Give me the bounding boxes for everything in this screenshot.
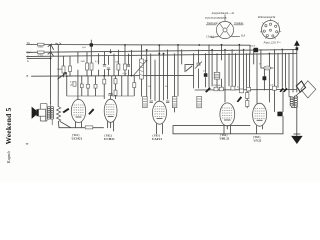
- wire vertical x91.5: [90, 40, 92, 76]
- wire T1 pins: [76, 122, 82, 128]
- paper speck: [26, 143, 29, 145]
- speaker LS cone: [32, 107, 39, 119]
- resistor R12: [240, 89, 244, 93]
- tube socket view circle: [262, 21, 280, 39]
- switch S1a: [48, 44, 54, 50]
- resistor R17: [87, 84, 90, 88]
- wire vertical x212.1: [211, 50, 213, 86]
- resistor R2 on bus B: [38, 51, 45, 54]
- speaker coil box: [39, 104, 47, 121]
- resistor R6: [90, 63, 93, 70]
- resistor R7: [117, 64, 120, 70]
- wire vertical x193.6: [193, 54, 195, 88]
- capacitor C4 blob: [204, 73, 208, 77]
- wire vertical x285.5: [285, 53, 287, 87]
- electrolytic C3: [90, 43, 93, 46]
- tube V5: [253, 103, 267, 126]
- wire vertical x150.7: [150, 54, 152, 99]
- resistor R21: [114, 90, 117, 95]
- resistor R8: [124, 64, 127, 70]
- wave mark on bus A: [56, 43, 62, 45]
- wire vertical x178: [177, 45, 179, 96]
- wire vertical x264.4 cap blob lead: [263, 68, 265, 90]
- IF transformer T2b: [172, 97, 177, 108]
- IF transformer T2a: [143, 97, 148, 108]
- electrolytic C9: [277, 112, 282, 117]
- wire vertical x257: [256, 54, 258, 104]
- wire vertical x174.5 IF2 leads: [174, 54, 176, 112]
- capacitor C2: [127, 65, 130, 66]
- coil L1 tuned: [133, 59, 147, 79]
- mains plug diamond outer: [301, 81, 316, 98]
- capacitor C10: [73, 82, 76, 86]
- wire bus A top: [32, 45, 251, 54]
- wire vertical x63.5: [63, 56, 65, 77]
- junction dots: [50, 44, 298, 77]
- wire vertical x181.7: [181, 50, 183, 64]
- switch S2 bracket: [185, 65, 194, 72]
- wire bus D mid: [32, 74, 194, 77]
- capacitor C8: [166, 101, 169, 103]
- wire main right rail: [296, 45, 298, 136]
- node E terminal: [27, 55, 32, 57]
- trimmer CT1: [195, 62, 202, 69]
- wire vertical x278: [277, 53, 279, 87]
- wire vertical x128.5: [128, 54, 130, 76]
- wire vertical x155: [154, 60, 156, 101]
- resistor R3: [62, 66, 65, 73]
- wire vertical x274.5: [274, 49, 276, 111]
- resistor R1 on bus A: [38, 43, 45, 46]
- IF coil T3a: [214, 72, 220, 79]
- wire vertical x125: [124, 45, 126, 76]
- wire bottom loop: [173, 116, 283, 133]
- resistor R16 heater: [85, 126, 93, 129]
- wire vertical x118.4: [117, 50, 119, 76]
- wire T4 pins: [224, 125, 231, 133]
- IF coil T3 leads: [216, 54, 218, 87]
- electrolytic C6: [254, 48, 259, 52]
- resistor R15: [273, 86, 277, 90]
- rectifier arrows D2: [279, 88, 287, 93]
- wire vertical x219.3: [221, 45, 223, 87]
- wire T3 pins: [157, 124, 163, 134]
- transformer TR1 windings: [289, 92, 300, 108]
- title Kapsch: [6, 149, 12, 165]
- wire vertical x159.3: [158, 45, 160, 101]
- resistor R9: [214, 87, 218, 91]
- wire vertical x50.6: [50, 45, 52, 104]
- capacitor C7: [150, 101, 153, 103]
- wire T2 pins: [108, 122, 114, 131]
- wire vertical x104-109 caps: [105, 52, 109, 76]
- grid arrow V1 right: [88, 108, 94, 115]
- wire vertical x253.7: [253, 50, 255, 65]
- resistor R19: [103, 79, 106, 84]
- resistor R20: [114, 79, 117, 84]
- capacitor C11: [80, 84, 83, 88]
- wire bus C: [32, 54, 297, 57]
- coil L2: [197, 96, 202, 107]
- wire vertical x58.3: [57, 45, 59, 107]
- switch S1b: [48, 52, 54, 56]
- wire vertical x246.4: [245, 54, 247, 88]
- resistor R18: [94, 84, 97, 88]
- arrow dark D1: [205, 87, 211, 93]
- mains plug body: [296, 81, 305, 92]
- divider column R14: [246, 93, 249, 107]
- arrow dark D3: [237, 96, 243, 102]
- wire vertical x282.3: [281, 49, 284, 111]
- wire heater chain left: [59, 127, 104, 129]
- fuse F1: [264, 66, 271, 70]
- resistor R22: [133, 83, 136, 88]
- wire vertical x232.1: [231, 50, 233, 86]
- tube V3: [153, 101, 167, 124]
- capacitor C1 pair: [103, 65, 110, 70]
- wire vertical x225: [224, 50, 226, 102]
- grid arrow V1 left: [63, 108, 70, 113]
- output transformer OT windings: [47, 103, 53, 126]
- left diag wire speaker to heater: [45, 116, 47, 121]
- wire pot wiper drop: [58, 122, 71, 128]
- wire vertical x229: [228, 54, 230, 86]
- resistor R5: [86, 63, 89, 70]
- wire vertical x209: [208, 45, 210, 87]
- wire vertical x293: [292, 49, 294, 92]
- tube V4: [220, 103, 235, 126]
- resistor R13: [247, 87, 251, 91]
- wire vertical x235.5: [235, 54, 237, 86]
- tube V2: [104, 94, 117, 123]
- wire vertical x163.5: [163, 54, 165, 100]
- wire vertical x167.5: [167, 50, 169, 99]
- ground symbol: [292, 134, 302, 143]
- wire vertical x141.5 coil leads: [141, 45, 143, 96]
- wire vertical x239.3: [238, 45, 240, 89]
- wire bus B: [32, 50, 297, 53]
- antenna arrow: [294, 40, 300, 50]
- title Weekend 5: [4, 106, 14, 146]
- wire vertical x146.7: [146, 50, 148, 96]
- wire vertical x269.4: [268, 53, 270, 102]
- wire vertical x249.6: [247, 54, 249, 108]
- node G terminal: [27, 57, 51, 59]
- wire T5 pins: [257, 126, 263, 134]
- node PU terminal: [27, 51, 32, 53]
- wire vertical x77.9: [77, 52, 79, 99]
- socket pin ticks: [260, 19, 281, 40]
- pot arrow P2: [58, 73, 67, 80]
- resistor R4: [69, 66, 72, 72]
- trimmer C-T leads: [198, 50, 200, 88]
- dial drive diagram: [206, 15, 244, 39]
- node TA terminal: [27, 44, 32, 46]
- wire vertical x203.6: [205, 54, 207, 87]
- tube V1: [71, 99, 85, 122]
- wire vertical x131.5: [131, 50, 133, 75]
- potentiometer P1 zigzag: [57, 107, 61, 122]
- wire AVC rail: [195, 89, 297, 92]
- wire vertical x87: [86, 52, 88, 76]
- wire vertical x243.6: [243, 50, 245, 89]
- resistor R11: [231, 86, 235, 90]
- resistor R10: [219, 87, 223, 91]
- fuse leads: [261, 50, 273, 69]
- wire vertical x110.6 top cap lead: [110, 50, 112, 53]
- capacitor C5 blob: [263, 76, 267, 80]
- junction dots bus right: [211, 49, 283, 55]
- wire vertical x289: [288, 53, 290, 92]
- wire vertical x98.6: [98, 54, 100, 76]
- wire vertical x70: [69, 57, 71, 77]
- wire midband verticals: [67, 76, 135, 99]
- wire vertical x114: [113, 54, 115, 76]
